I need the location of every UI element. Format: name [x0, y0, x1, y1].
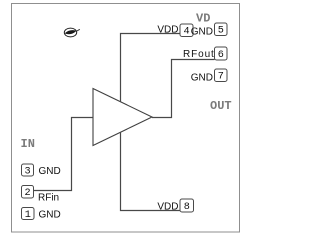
label GND (pin 5)	[191, 27, 213, 38]
svg-text:3: 3	[24, 166, 30, 177]
svg-text:6: 6	[218, 50, 224, 61]
svg-text:8: 8	[184, 202, 190, 213]
svg-text:RFout: RFout	[183, 49, 215, 60]
svg-text:VDD: VDD	[157, 202, 178, 213]
svg-text:GND: GND	[191, 27, 213, 38]
svg-text:1: 1	[25, 210, 31, 221]
pin 2	[22, 186, 34, 200]
pin 6	[215, 47, 228, 61]
svg-text:4: 4	[183, 27, 189, 38]
label VDD (pin 8)	[157, 202, 178, 213]
label GND (pin 3)	[39, 166, 61, 177]
port OUT	[210, 99, 232, 113]
svg-text:GND: GND	[39, 210, 61, 221]
svg-text:IN: IN	[21, 137, 35, 151]
svg-text:7: 7	[218, 72, 224, 83]
pin 8	[180, 199, 194, 213]
label GND (pin 1)	[39, 210, 61, 221]
wire: pin 2 RFin to amplifier input	[34, 118, 94, 191]
pin 5	[215, 23, 228, 37]
pin 7	[215, 69, 228, 83]
amplifier	[93, 89, 152, 146]
wire: amplifier bottom to pin 8 VDD	[121, 132, 181, 210]
pin 3	[22, 164, 34, 177]
port IN	[21, 137, 35, 151]
label VDD (pin 4)	[157, 25, 178, 36]
svg-text:5: 5	[218, 26, 224, 37]
svg-text:2: 2	[24, 188, 30, 199]
svg-text:OUT: OUT	[210, 99, 232, 113]
wire: amplifier output to pin 6 RFout	[152, 60, 215, 118]
wire: pin 4 VDD to amplifier top	[121, 34, 181, 102]
svg-text:VDD: VDD	[157, 25, 178, 36]
label RFout (pin 6)	[183, 49, 215, 60]
svg-text:VD: VD	[196, 12, 210, 26]
label RFin (pin 2)	[38, 193, 59, 204]
svg-text:GND: GND	[39, 166, 61, 177]
manufacturer logo	[64, 28, 80, 37]
svg-text:GND: GND	[191, 73, 213, 84]
label GND (pin 7)	[191, 73, 213, 84]
svg-text:RFin: RFin	[38, 193, 59, 204]
pin 4	[180, 24, 193, 38]
port VD	[196, 12, 210, 26]
pin 1	[22, 208, 35, 221]
